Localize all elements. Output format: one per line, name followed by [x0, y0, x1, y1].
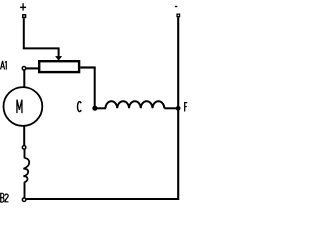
- label C: [78, 102, 82, 112]
- label A1: [1, 61, 7, 70]
- label B2: [0, 193, 8, 202]
- wire field coil to F node: [164, 107, 178, 109]
- minus label: [175, 6, 177, 7]
- node F junction dot: [176, 106, 181, 111]
- label M: [17, 100, 22, 114]
- terminal A1 ring: [22, 67, 26, 71]
- wire to wiper: [23, 48, 59, 56]
- wire coil to B2 ring: [24, 182, 26, 198]
- resistor R (rheostat box): [39, 61, 79, 72]
- terminal +: [22, 14, 26, 18]
- wire C node to field coil: [95, 107, 106, 109]
- wire from + terminal down: [23, 18, 25, 48]
- terminal B2 ring: [22, 198, 26, 202]
- wire A1 ring to resistor: [26, 67, 40, 69]
- wire motor bottom to node ring: [23, 126, 25, 146]
- motor M circle: [4, 87, 43, 126]
- node ring: [22, 146, 26, 150]
- node C junction dot: [92, 106, 97, 111]
- wire node ring to coil: [24, 149, 26, 158]
- terminal -: [176, 14, 180, 18]
- wiper arrowhead: [55, 56, 62, 61]
- wire resistor to C drop (top segment): [80, 66, 96, 68]
- inductor L1 (vertical coil): [23, 158, 29, 182]
- wire down to C node: [94, 68, 96, 108]
- wire A1 ring down to motor: [23, 70, 25, 87]
- wire right side and bottom return: [26, 17, 178, 199]
- plus label: [20, 3, 26, 10]
- label F: [184, 102, 187, 111]
- inductor L2 (field coil, 5 humps): [106, 101, 165, 108]
